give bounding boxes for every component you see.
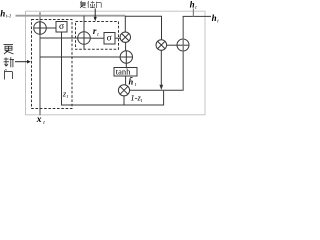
op-amp E: z multiply circle-cross — [156, 40, 167, 51]
wire x to D horizontal — [40, 56, 120, 58]
svg-text:t-1: t-1 — [6, 15, 11, 20]
wire h_t up stub — [192, 9, 194, 17]
svg-text:t: t — [195, 6, 197, 11]
op-amp C: reset multiply circle-cross — [120, 32, 130, 42]
op-amp B: reset adder circle-plus — [78, 32, 91, 45]
svg-text:t: t — [67, 95, 69, 100]
svg-text:σ: σ — [107, 33, 112, 43]
arrow 更新门 — [15, 61, 28, 63]
wire tanh to G — [125, 76, 127, 85]
svg-text:h: h — [212, 13, 217, 23]
label 更新门 (update gate) — [4, 45, 15, 80]
wire h top branch: down into C, right and down to E — [125, 16, 162, 40]
op-amp A: update adder circle-plus — [34, 22, 47, 35]
wire C to D — [125, 42, 127, 51]
wire output h_t top right — [183, 15, 211, 17]
svg-text:σ: σ — [59, 22, 64, 32]
svg-text:h̃: h̃ — [129, 77, 134, 87]
wire B to sigma2 — [90, 37, 104, 39]
wire x_t vertical trunk gray — [39, 12, 41, 115]
wire below B stub — [83, 44, 85, 49]
op-amp F: output adder circle-plus — [177, 39, 189, 51]
box sigma1 — [56, 22, 67, 33]
wire D to tanh — [125, 63, 127, 67]
wire G output right (line1) — [130, 89, 184, 91]
update gate dashed box — [32, 20, 73, 109]
wire x to B horizontal — [40, 37, 78, 39]
wire sigma2 to C — [115, 37, 120, 39]
wire G down to z line — [123, 96, 125, 105]
wire A to sigma1 — [46, 27, 56, 29]
svg-text:tanh: tanh — [116, 67, 131, 77]
wire E down with arrow into line1 — [160, 50, 162, 85]
svg-text:x: x — [36, 115, 42, 125]
svg-text:t: t — [217, 19, 219, 24]
box sigma2 — [104, 33, 115, 45]
svg-text:h: h — [0, 9, 5, 19]
wire h into B from top — [83, 16, 85, 32]
svg-text:t: t — [141, 99, 143, 104]
wire F vertical gray through — [182, 17, 184, 91]
svg-text:t: t — [97, 33, 99, 38]
svg-text:t: t — [43, 120, 45, 126]
op-amp G: (1-z) multiply circle-cross — [118, 85, 129, 96]
label 复位门 (reset gate) — [80, 1, 101, 8]
wire z_t: sigma1 down and right and up — [62, 32, 164, 105]
box tanh — [114, 68, 137, 77]
outer cell box — [26, 11, 206, 115]
op-amp D: candidate adder circle-plus — [120, 51, 132, 63]
reset gate dashed box — [76, 22, 119, 50]
svg-text:h: h — [190, 0, 195, 9]
svg-text:t: t — [135, 83, 137, 88]
arrow 复位门 — [94, 9, 96, 18]
wire E to F — [167, 44, 177, 46]
wire h_{t-1} horizontal gray — [16, 15, 126, 17]
